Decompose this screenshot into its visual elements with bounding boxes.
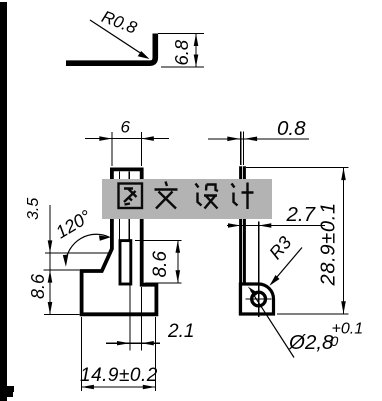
leader R3	[265, 233, 302, 286]
dimension 2.7	[227, 203, 325, 228]
svg-text:6.8: 6.8	[171, 39, 192, 65]
hole centerlines	[246, 298, 272, 300]
left dims 3.5 and 8.6	[25, 198, 110, 315]
dimension 2.1	[106, 321, 194, 345]
svg-text:6: 6	[121, 118, 131, 137]
dimension 28.9 +/- 0.1	[246, 168, 349, 314]
svg-text:8.6: 8.6	[28, 273, 48, 299]
inner thin bend lines	[119, 172, 121, 241]
svg-text:14.9±0.2: 14.9±0.2	[80, 365, 158, 386]
L profile thick outline	[66, 34, 155, 64]
svg-text:Ø2,8: Ø2,8	[288, 331, 334, 354]
thin ext line below rect for 2.1	[129, 285, 131, 351]
svg-text:28.9±0.1: 28.9±0.1	[318, 202, 340, 286]
svg-text:8.6: 8.6	[150, 251, 171, 278]
svg-text:2.1: 2.1	[167, 321, 194, 342]
dimension 6.8	[158, 34, 204, 68]
bottom block outline	[240, 284, 273, 314]
hand-drawn CJK: tu (picture)	[119, 184, 143, 209]
svg-text:3.5: 3.5	[25, 198, 42, 220]
svg-text:0: 0	[331, 333, 339, 349]
right dim 8.6	[135, 240, 182, 282]
leader dia 2.8	[248, 287, 363, 358]
dimension 0.8	[208, 117, 309, 165]
leader R0.8	[90, 7, 150, 59]
hand-drawn CJK: wen (script)	[155, 182, 178, 209]
inner tab rectangle	[120, 241, 131, 284]
front view body outline	[82, 169, 157, 314]
side strip two thick lines	[239, 166, 242, 314]
svg-text:0.8: 0.8	[277, 117, 306, 140]
dimension 14.9 +/- 0.2	[80, 317, 158, 391]
hole circle	[252, 292, 266, 306]
dimension 120deg	[52, 206, 110, 267]
dimension 6 (top)	[85, 118, 169, 167]
hand-drawn CJK: ji (calculate)	[232, 183, 254, 210]
hand-drawn CJK: she (design)	[196, 184, 219, 209]
svg-text:2.7: 2.7	[286, 203, 317, 226]
